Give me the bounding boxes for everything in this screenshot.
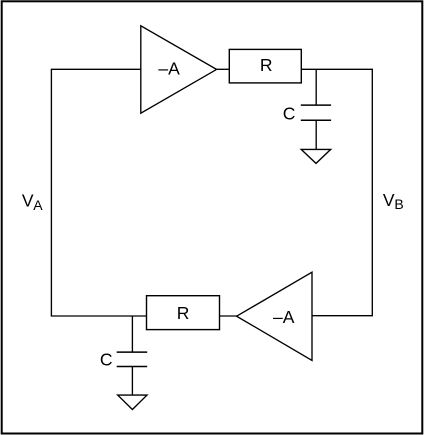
node VB label bbox=[383, 190, 404, 212]
op-amp U1 (-A, top) bbox=[141, 26, 217, 113]
svg-text:R: R bbox=[260, 55, 273, 75]
wire: top amp output to resistor R (top) bbox=[215, 68, 230, 70]
capacitor C (bottom) bbox=[100, 316, 147, 370]
ground (top) bbox=[301, 120, 331, 163]
capacitor C (top) bbox=[283, 69, 331, 123]
wire: top horizontal from VA bus to top amp input bbox=[51, 68, 141, 70]
svg-text:V: V bbox=[22, 190, 34, 210]
svg-text:–A: –A bbox=[158, 59, 180, 79]
svg-text:C: C bbox=[100, 350, 113, 370]
svg-text:–A: –A bbox=[273, 307, 295, 327]
wire: right vertical VB bus bbox=[371, 69, 373, 317]
wire: resistor R (bottom) to left VA bus, with C junction bbox=[51, 315, 147, 317]
svg-text:R: R bbox=[177, 303, 190, 323]
wire: bottom horizontal from VB bus to bottom amp input bbox=[312, 315, 372, 317]
wire: resistor R (top) to right VB bus, with C junction bbox=[301, 68, 372, 70]
resistor R (bottom) bbox=[147, 296, 220, 330]
wire: left vertical VA bus bbox=[50, 69, 52, 316]
ground (bottom) bbox=[118, 367, 147, 410]
svg-text:V: V bbox=[383, 190, 395, 210]
svg-text:B: B bbox=[394, 196, 403, 212]
svg-text:C: C bbox=[283, 104, 296, 124]
node VA label bbox=[22, 190, 43, 213]
wire: bottom amp output to resistor R (bottom) bbox=[220, 315, 238, 317]
op-amp U2 (-A, bottom) bbox=[237, 272, 312, 360]
svg-text:A: A bbox=[33, 197, 43, 213]
resistor R (top) bbox=[229, 49, 301, 83]
